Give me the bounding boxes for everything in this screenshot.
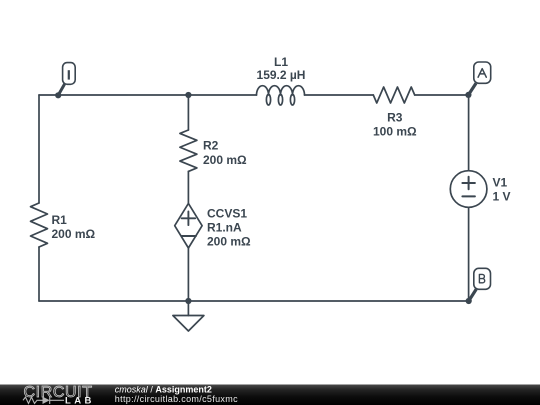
- wire left vertical upper: [38, 95, 40, 203]
- node I flag pointer: [58, 84, 64, 95]
- footer logo diode bar and line: [50, 397, 64, 404]
- V1 plus sign: [462, 177, 475, 189]
- svg-text:R3: R3: [387, 110, 403, 124]
- node A flag letter: [478, 69, 486, 78]
- wire top right segment (R3 to node A): [415, 94, 469, 96]
- svg-text:R1.nA: R1.nA: [207, 221, 242, 235]
- svg-text:R2: R2: [203, 138, 219, 152]
- svg-text:LAB: LAB: [65, 395, 95, 405]
- node I flag box: [63, 63, 76, 85]
- junction dot at R2 top: [185, 92, 191, 98]
- node I junction dot: [55, 92, 61, 98]
- svg-text:200 mΩ: 200 mΩ: [207, 234, 251, 248]
- node I flag letter: [68, 70, 70, 79]
- svg-text:R1: R1: [52, 213, 68, 227]
- wire left vertical lower: [38, 247, 40, 301]
- wire right vertical lower (V1 to node B): [468, 207, 470, 301]
- CCVS1 plus sign: [182, 212, 196, 226]
- ground stub wire: [187, 301, 189, 316]
- node B flag pointer: [469, 289, 477, 301]
- V1 minus sign: [462, 195, 475, 197]
- inductor L1 loop 1: [266, 94, 270, 105]
- svg-text:159.2 µH: 159.2 µH: [257, 68, 306, 82]
- resistor R1: [31, 203, 48, 247]
- CCVS1 minus sign: [182, 235, 196, 237]
- wire middle vertical (R2 to CCVS1): [187, 171, 189, 203]
- wire middle vertical lower (CCVS1 to ground node): [187, 248, 189, 301]
- node A junction dot: [465, 92, 471, 98]
- svg-text:100 mΩ: 100 mΩ: [373, 125, 417, 139]
- node A flag box: [474, 62, 491, 83]
- resistor R2: [180, 130, 197, 171]
- inductor L1 loop 2: [278, 94, 282, 105]
- footer logo diode: [43, 397, 50, 404]
- voltage source V1 circle: [450, 171, 487, 208]
- svg-text:V1: V1: [493, 175, 508, 189]
- ground symbol triangle: [173, 316, 204, 332]
- wire top middle segment (L1 to R3): [305, 94, 374, 96]
- footer bar: [0, 385, 540, 405]
- svg-text:1 V: 1 V: [493, 190, 511, 204]
- inductor L1 loop 3: [290, 94, 294, 105]
- resistor R3: [373, 87, 414, 103]
- node A flag pointer: [468, 83, 476, 95]
- wire top-left segment: [39, 94, 257, 96]
- svg-text:http://circuitlab.com/c5fuxmc: http://circuitlab.com/c5fuxmc: [115, 394, 238, 404]
- svg-text:200 mΩ: 200 mΩ: [203, 153, 247, 167]
- node B flag box: [474, 268, 491, 289]
- footer logo resistor-diode squiggle: [23, 397, 43, 403]
- wire middle vertical upper (to R2): [187, 95, 189, 130]
- svg-text:CCVS1: CCVS1: [207, 207, 247, 221]
- svg-text:200 mΩ: 200 mΩ: [52, 227, 96, 241]
- node B flag letter: [479, 274, 484, 282]
- junction dot at ground: [185, 298, 191, 304]
- dependent source CCVS1 diamond: [175, 203, 202, 248]
- wire right vertical upper (node A to V1): [468, 95, 470, 171]
- wire bottom: [39, 300, 469, 302]
- node B junction dot: [466, 298, 472, 304]
- inductor L1: [257, 86, 305, 95]
